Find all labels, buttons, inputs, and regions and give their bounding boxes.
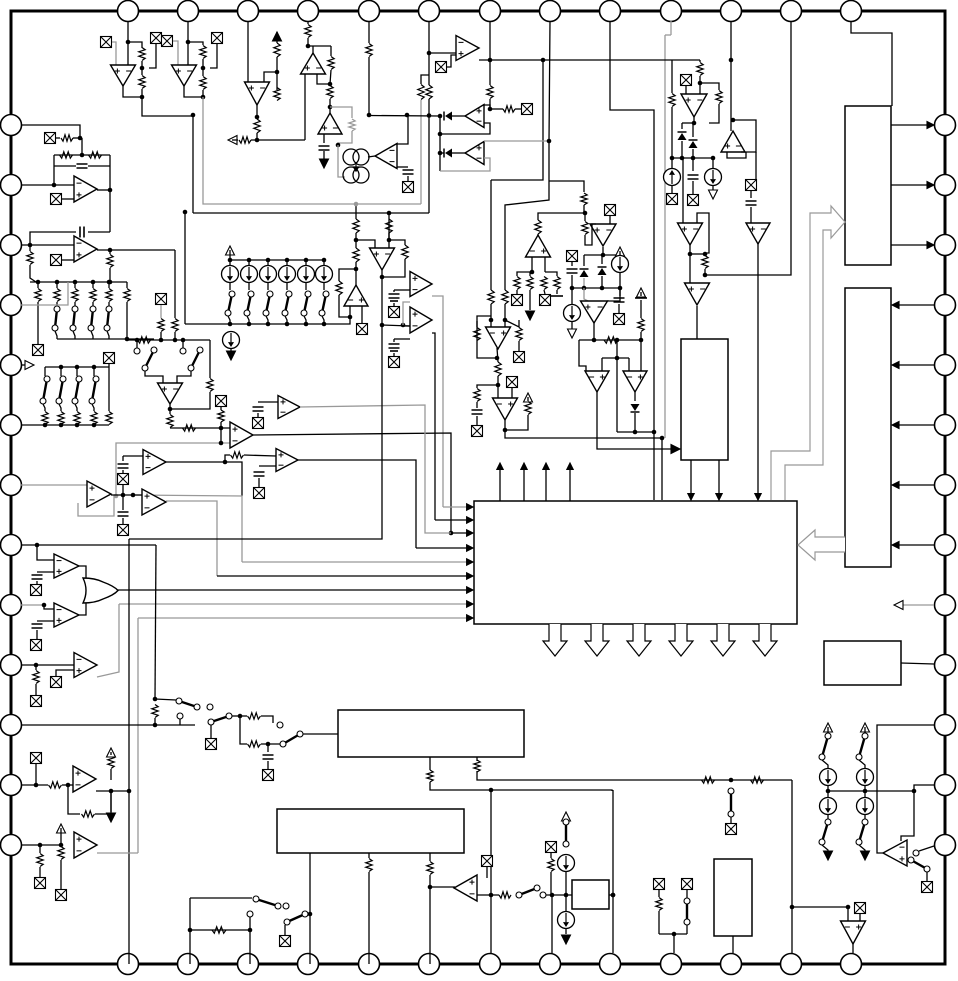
resistor R26 (474, 328, 480, 341)
resistor R53 (33, 671, 39, 684)
op-amp U39 (410, 307, 432, 333)
junction x620 y288 (618, 286, 623, 291)
wire bank2 bottom bus to pin425 (21, 424, 109, 426)
resistor R63 (366, 859, 372, 872)
open arrowhead up x61 (57, 824, 66, 833)
current source I81 (857, 769, 874, 786)
op-amp U37 (344, 285, 368, 306)
wire SC4 to bus (304, 316, 306, 324)
wire pin785 left route (828, 785, 934, 791)
resistor R16 (328, 57, 334, 70)
cap bar x641 (635, 297, 647, 299)
resistor R22 (669, 94, 675, 107)
wire pin to block B y=425 (895, 424, 934, 426)
terminal X36 (56, 890, 67, 901)
wire y254 (690, 253, 705, 255)
wire transformer to U6 (368, 156, 375, 157)
junction bank2 bottom x=77 (75, 423, 80, 428)
wire x491 upper (490, 180, 492, 290)
resistor R41b feedback (89, 152, 102, 158)
switch SB5 (563, 819, 569, 847)
resistor R29 (474, 389, 480, 402)
wire U4 apex stub (312, 46, 314, 53)
pin right 9 (935, 595, 956, 616)
junction x682 y158 (680, 156, 685, 161)
wire X1 gray to U1 (112, 42, 116, 65)
op-amp U41 (276, 449, 298, 472)
wire C11 to X27 (122, 518, 124, 524)
wire R70a down (355, 233, 357, 248)
wire C1 down (323, 151, 325, 160)
polar bar C15 (390, 300, 398, 302)
wire bus y325 (382, 325, 410, 326)
wire bus y288 (572, 287, 620, 289)
wire X2 down (149, 44, 156, 68)
pin right 12 (935, 775, 956, 796)
wire R33 stub (529, 272, 531, 276)
wire SL13 to bus (107, 331, 109, 339)
wire R64 to pin (429, 875, 431, 964)
wire U12 feedback (697, 213, 709, 253)
junction x566 y895 (564, 893, 569, 898)
switch SR3 (908, 857, 930, 872)
resistor R68 (751, 777, 764, 783)
open arrowhead x620 (616, 247, 625, 256)
arrowhead into C y=590 (467, 587, 473, 593)
terminal X5 (436, 62, 447, 73)
op-amp U31 (73, 766, 96, 792)
wire bus into C y590 (118, 589, 470, 591)
wire T9 left drop (388, 213, 390, 240)
block B register right (845, 288, 891, 567)
switch SM2 (188, 347, 203, 371)
wire fb2 rail (30, 232, 76, 245)
wire R53 to X30 (35, 684, 37, 695)
wire y930 (190, 929, 250, 931)
wire U25 upper input (123, 455, 143, 457)
current source I4 (564, 305, 581, 322)
resistor R24 (488, 290, 494, 304)
wire T branch down (240, 716, 247, 744)
wire C3 to X9 (692, 181, 694, 194)
resistor R35 (554, 277, 560, 290)
wire U41 lower input (259, 465, 276, 467)
wire pin429 to U7 (429, 52, 456, 54)
junction x713 y158 (711, 156, 716, 161)
switch SC5 (319, 291, 329, 316)
wire y181 right ext (549, 181, 584, 192)
wire E drop x477 (476, 757, 478, 761)
terminal X34 (31, 753, 42, 764)
junction x369 y115 (367, 113, 372, 118)
wire SC2 to bus (266, 316, 268, 324)
open arrowhead up x111 (107, 748, 116, 757)
junction x451 y533 (449, 531, 454, 536)
resistor R43 (27, 252, 33, 265)
wire stub up from block C x=524 (523, 470, 525, 501)
pin bottom 8 (540, 954, 561, 975)
junction x407 y115 (405, 113, 410, 118)
wire pin545 feed x156 (155, 545, 156, 699)
wire fb rail sides (53, 155, 55, 186)
wire R30 to out node (505, 415, 528, 430)
pin right 4 (935, 295, 956, 316)
wire bus into C y576 (217, 575, 470, 577)
wire R36 to U18 (585, 224, 596, 245)
junction x277 y72 (275, 70, 280, 75)
wire X39 to U33 (486, 867, 488, 878)
wire U24 lower input gray (116, 443, 230, 496)
resistor R70b (353, 248, 359, 262)
wire C15 to X46 (393, 303, 395, 306)
switch contact SM1b (134, 348, 140, 354)
junction x123 y495 (121, 493, 126, 498)
junction CS bank bottom x=306 (304, 322, 309, 327)
wire R29 to C5 (476, 402, 478, 408)
wire OR out stub (117, 589, 118, 591)
arrowhead J output x=691 (688, 494, 694, 500)
wire RB24 drop (108, 367, 110, 411)
resistor RB20 (42, 412, 48, 425)
switch contact SB1c (247, 911, 253, 917)
wire U8 feedback (440, 123, 490, 134)
pin left 5 (1, 355, 22, 376)
junction x268 y744 (266, 742, 271, 747)
wire x356 from gray bus (355, 204, 357, 219)
resistor R21 (716, 91, 722, 104)
junction CS bank x=249 (247, 258, 252, 263)
junction x175 y340 (173, 338, 178, 343)
terminal X19 (51, 194, 62, 205)
resistor R34 (541, 277, 547, 290)
diode D7 (631, 404, 640, 412)
wire pin365 stub (21, 364, 28, 366)
resistor R9 (305, 25, 311, 38)
wire SC5 to bus (322, 316, 324, 324)
junction x356 y240 (354, 238, 359, 243)
resistor R70 (548, 859, 554, 872)
pin bottom 11 (721, 954, 742, 975)
junction x61 y845 (59, 843, 64, 848)
wire U26 out (111, 494, 142, 496)
capacitor C6 (567, 269, 578, 273)
capacitor C3 (688, 175, 699, 179)
wire y340 right leg (640, 340, 642, 371)
wire U9 feedback gray (440, 158, 490, 171)
pin left 12 (1, 775, 22, 796)
resistor R36 (582, 222, 588, 235)
pin bottom 6 (419, 954, 440, 975)
wire node to C14 (267, 744, 269, 752)
junction x594 y340 (592, 338, 597, 343)
junction x572 y288 (570, 286, 575, 291)
pin right 11 (935, 715, 956, 736)
wire F to pin369 (368, 853, 370, 858)
wire y907 to U34 (847, 907, 849, 921)
junction x705 y254 (703, 252, 708, 257)
wire y358 stub right (628, 358, 630, 371)
junction x674 y934 (672, 932, 677, 937)
wire RB23 to bus (93, 424, 95, 426)
junction x225 y462 (223, 460, 228, 465)
junction x128 y42 (126, 40, 131, 45)
wire x331 chain (330, 46, 332, 56)
wire pin733 block G to bottom pin (732, 936, 734, 953)
terminal X47 (389, 357, 400, 368)
wire U14 left input (689, 254, 691, 283)
wire SB3 to X37 (284, 925, 286, 935)
wire block H right (609, 894, 613, 896)
capacitor C16 (389, 344, 400, 348)
pin left 8 (1, 535, 22, 556)
junction bank2 x=94 (92, 365, 97, 370)
junction x133 y495 (131, 493, 136, 498)
wire U4 right input (317, 74, 330, 84)
pin left 7 (1, 475, 22, 496)
junction x731 y780 (729, 778, 734, 783)
pin top 6 (419, 1, 440, 22)
resistor R30 (525, 402, 531, 415)
terminal X48 (254, 488, 265, 499)
wire bus into C y604 (119, 603, 470, 605)
junction x161 y340 (159, 338, 164, 343)
current source I5 (223, 332, 240, 349)
wire node down to fb (81, 138, 83, 155)
wire pin490 down (489, 21, 491, 85)
junction x155 y725 (153, 723, 158, 728)
wire C11a stub (122, 456, 124, 461)
wire gray to U42 (584, 288, 588, 301)
switch SL10 (52, 306, 60, 331)
op-amp U2 (172, 65, 197, 86)
junction ladder1 x=57 (55, 280, 60, 285)
wire C2 to X4 (407, 176, 409, 181)
open arrowhead up x528 (524, 393, 533, 402)
junction x440 y153 (438, 151, 443, 156)
junction x429 y53 (427, 51, 432, 56)
wire U42 out (593, 323, 595, 340)
wire C16 link (393, 339, 395, 342)
wire X31 stub (56, 670, 74, 676)
op-amp U23 (158, 383, 183, 404)
wire IB5 to switch (323, 282, 325, 290)
bus arrow block C to block A (771, 206, 845, 500)
wire gray pin671 jog (665, 34, 671, 36)
pin right 8 (935, 535, 956, 556)
wire R25 to U15 (504, 304, 506, 327)
wire out to diodes (682, 122, 694, 124)
resistor R73 (336, 281, 342, 295)
capacitor C14 (263, 755, 274, 759)
wire RB21 to bus (60, 424, 62, 426)
junction CS bank bottom x=249 (247, 322, 252, 327)
junction x80 y138 (78, 136, 83, 141)
current source I90 (820, 798, 837, 815)
terminal X2 (151, 33, 162, 44)
wire arrow stub x277 (276, 32, 278, 43)
wire U24 out (253, 433, 451, 533)
capacitor C13 (32, 624, 43, 628)
wire pin792 vertical (791, 780, 793, 953)
wire T9 output riser x382 (129, 277, 382, 539)
junction x491 y790 (489, 788, 494, 793)
wire I6 to node (565, 872, 567, 912)
wire bank2 drop x=45 (44, 367, 46, 376)
junction x308 y46 (306, 44, 311, 49)
resistor R37 (638, 319, 644, 332)
resistor R36b (581, 193, 587, 205)
junction x330 y84 (328, 82, 333, 87)
junction x382 y325 (380, 323, 385, 328)
capacitor C4 (746, 201, 757, 205)
wire pin245 to U22 (21, 244, 74, 246)
resistor R13 (274, 88, 280, 101)
wire R22 top (671, 60, 673, 93)
switch SB20 (40, 376, 50, 404)
wire bus y780 (477, 771, 792, 780)
wire stub up from block C x=500 (499, 470, 501, 501)
terminal X2b (162, 36, 173, 47)
switch SS1 (176, 698, 200, 710)
resistor R17 (327, 86, 333, 99)
wire X24 chain (220, 407, 222, 410)
op-amp U36 (370, 248, 395, 270)
resistor R19 (503, 106, 515, 112)
junction x36 y665 (34, 663, 39, 668)
junction x203 y97 (201, 95, 206, 100)
wire X40 to R70 (550, 853, 552, 858)
wire CS bank top bus (230, 259, 324, 261)
wire bus into C y548 (416, 547, 470, 549)
wire CS bank arrow stub (229, 250, 231, 260)
wire RB22 to bus (76, 424, 78, 426)
wire U38 out gray (432, 296, 443, 507)
diode D3 (678, 132, 687, 140)
junction x257 y140 (255, 138, 260, 143)
wire C11a to X26 (122, 470, 124, 473)
wire R70 down (551, 872, 552, 895)
junction CS bank x=324 (322, 258, 327, 263)
wire SR3 to X44 (926, 872, 928, 881)
wire RL11 to switch (56, 302, 58, 306)
pin bottom 13 (841, 954, 862, 975)
junction x240 y716 (238, 714, 243, 719)
junction x430 y887 (428, 885, 433, 890)
open arrowhead left y140 (228, 136, 237, 145)
wire arrow to R30 (527, 397, 529, 401)
junction x310 y914 (308, 912, 313, 917)
junction CS bank x=230 (228, 258, 233, 263)
op-amp U32 (74, 832, 97, 858)
wire CS bank drop 3 (286, 260, 288, 267)
terminal X33 (206, 739, 217, 750)
op-amp U12 (678, 223, 703, 245)
wire SS2 stub (179, 719, 181, 725)
arrowhead down x530 (526, 311, 535, 320)
wire x756 down (755, 152, 757, 179)
wire U1 out corner path (142, 97, 193, 213)
wire bus y46 (308, 45, 331, 47)
wire block J output x=719 (718, 460, 720, 497)
resistor R23 (702, 256, 708, 269)
junction x193 y115 (191, 113, 196, 118)
wire x111 down stub (110, 791, 112, 812)
switch SB23 (89, 376, 99, 404)
arrowhead up x277 (273, 32, 282, 41)
pin right 10 (935, 655, 956, 676)
terminal X21 (33, 345, 44, 356)
wire SC0 to bus (228, 316, 230, 324)
wire R21 down (709, 104, 719, 123)
wire pin725 right (21, 724, 195, 726)
wire U41 out (298, 460, 416, 548)
wire R55 right (261, 716, 273, 723)
wire CS bank bottom bus (185, 317, 350, 324)
pin bottom 5 (359, 954, 380, 975)
terminal X10 (746, 180, 757, 191)
wire U30 out gray riser (97, 604, 119, 677)
current source IB3 (279, 266, 296, 283)
resistor R54 (152, 705, 158, 718)
wire U39 lower input (394, 338, 410, 340)
terminal X3 (212, 33, 223, 44)
wire R35 top (545, 272, 557, 276)
wire U1 output to x142 (123, 86, 142, 97)
junction x68 y785 (66, 783, 71, 788)
junction x617 y340 (615, 338, 620, 343)
arrowhead into block B y=485 (892, 482, 899, 489)
wire pin605 right stub (898, 604, 934, 606)
junction x613 y895 (611, 893, 616, 898)
switch SC0 (225, 291, 235, 316)
op-amp U4 (301, 53, 326, 74)
junction x44 y605 (42, 603, 47, 608)
terminal X45 (357, 324, 368, 335)
junction x490 y60 (488, 58, 493, 63)
wire SH1 to X38 (730, 817, 732, 823)
wire U20 out (634, 392, 636, 401)
junction bank2 bottom x=45 (43, 423, 48, 428)
switch SR0a (819, 733, 831, 760)
wire ST2 to block E (303, 733, 338, 735)
wire gray node107 down (330, 107, 352, 118)
open arrowhead CS4 (568, 329, 577, 338)
junction x700 y83 (698, 81, 703, 86)
pin bottom 1 (118, 954, 139, 975)
wire SL10 to bus (55, 331, 57, 339)
wire pin665 to U30 (21, 664, 74, 666)
wire R61 to X36 (60, 860, 62, 889)
resistor R40 (61, 135, 73, 141)
resistor R6 (200, 77, 206, 90)
wire x129 vertical to pin128 (128, 539, 130, 964)
terminal X16 (605, 205, 616, 216)
wire x110 down (109, 190, 111, 232)
wire U28 lower input (37, 571, 54, 573)
pin right 3 (935, 235, 956, 256)
junction x662 y438 (660, 436, 665, 441)
arrowhead up x=500 (497, 463, 503, 469)
open arrowhead up CS bank (226, 246, 235, 255)
wire pin429 down (428, 21, 430, 85)
junction x36 y785 (34, 783, 39, 788)
wire node107 to U5 apex (329, 107, 331, 113)
wire U8 out node (484, 105, 490, 109)
wire pin545 bus (21, 544, 156, 546)
wire bus y432 (617, 431, 654, 433)
wire x491 hang (490, 790, 492, 895)
wire U11 feedback (727, 152, 746, 158)
